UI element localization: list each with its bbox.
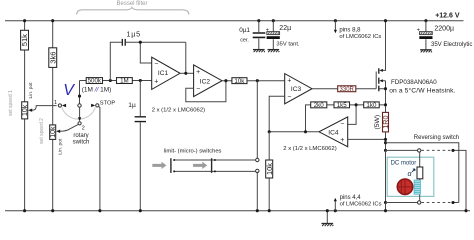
svg-text:on a 5°C/W Heatsink.: on a 5°C/W Heatsink. <box>389 87 455 95</box>
svg-text:DC motor: DC motor <box>391 161 417 167</box>
svg-text:1k5: 1k5 <box>337 102 348 109</box>
svg-text:10k: 10k <box>22 104 29 116</box>
svg-text:set speed 2: set speed 2 <box>39 118 45 144</box>
svg-text:of LMC6062 ICs: of LMC6062 ICs <box>339 34 381 40</box>
svg-text:Bessel filter: Bessel filter <box>117 1 148 7</box>
svg-text:Reversing switch: Reversing switch <box>414 135 459 141</box>
svg-text:1R0: 1R0 <box>381 116 390 129</box>
svg-text:3k6: 3k6 <box>48 51 57 63</box>
svg-text:+: + <box>417 27 420 33</box>
svg-text:2: 2 <box>82 125 85 131</box>
svg-text:1: 1 <box>54 100 57 106</box>
svg-text:FDP038AN06A0: FDP038AN06A0 <box>391 79 437 86</box>
svg-text:+: + <box>340 137 344 144</box>
svg-text:Lin. pot: Lin. pot <box>57 138 63 155</box>
svg-text:pins 4,4: pins 4,4 <box>340 195 362 201</box>
svg-text:500k: 500k <box>88 78 102 85</box>
svg-text:2200µ: 2200µ <box>434 25 454 32</box>
svg-text:51k: 51k <box>20 34 29 46</box>
svg-text:V: V <box>63 82 75 99</box>
svg-text:STOP: STOP <box>100 100 116 106</box>
svg-text:35V Electrolytic: 35V Electrolytic <box>431 42 472 48</box>
svg-text:1k0: 1k0 <box>366 102 377 109</box>
svg-text:35V tant.: 35V tant. <box>276 41 300 47</box>
svg-text:−: − <box>154 61 158 68</box>
svg-text:+12.6 V: +12.6 V <box>435 13 460 20</box>
svg-text:330R: 330R <box>340 87 355 93</box>
svg-text:−: − <box>287 94 291 101</box>
svg-text:1M: 1M <box>120 78 129 85</box>
svg-text:of LMC6062 ICs: of LMC6062 ICs <box>340 202 382 208</box>
svg-text:set speed 1: set speed 1 <box>8 90 14 116</box>
svg-text:+: + <box>154 79 158 86</box>
svg-text:Lin. pot: Lin. pot <box>28 82 34 99</box>
svg-text:IC1: IC1 <box>158 70 169 77</box>
svg-text:rotary: rotary <box>73 133 88 139</box>
svg-text:−: − <box>340 121 344 128</box>
svg-text:−: − <box>196 86 200 93</box>
svg-text:IC3: IC3 <box>291 86 302 93</box>
svg-text:IC2: IC2 <box>200 79 211 86</box>
svg-text:IC4: IC4 <box>328 129 339 136</box>
svg-text:limit- (micro-) switches: limit- (micro-) switches <box>164 149 222 155</box>
svg-text:10k: 10k <box>50 126 57 138</box>
svg-text:10k: 10k <box>234 78 245 85</box>
svg-text:2 x (1/2 x LMC6062): 2 x (1/2 x LMC6062) <box>152 108 205 114</box>
svg-text:cer.: cer. <box>240 38 249 44</box>
svg-text:22µ: 22µ <box>279 25 291 32</box>
svg-text:2 x (1/2 x LMC6062): 2 x (1/2 x LMC6062) <box>283 146 336 152</box>
svg-text:2k0: 2k0 <box>314 102 325 109</box>
svg-text:1µ: 1µ <box>128 102 136 109</box>
svg-text:10k: 10k <box>265 163 274 175</box>
svg-text:+: + <box>266 27 269 33</box>
svg-text:(1M // 1M): (1M // 1M) <box>82 87 112 94</box>
svg-text:+: + <box>196 69 200 76</box>
svg-text:switch: switch <box>73 140 90 146</box>
svg-text:(5W): (5W) <box>374 115 381 130</box>
svg-text:+: + <box>287 78 291 85</box>
svg-text:pins 8,8: pins 8,8 <box>339 27 361 33</box>
svg-text:0µ1: 0µ1 <box>239 27 250 34</box>
svg-text:1µ5: 1µ5 <box>126 30 141 39</box>
